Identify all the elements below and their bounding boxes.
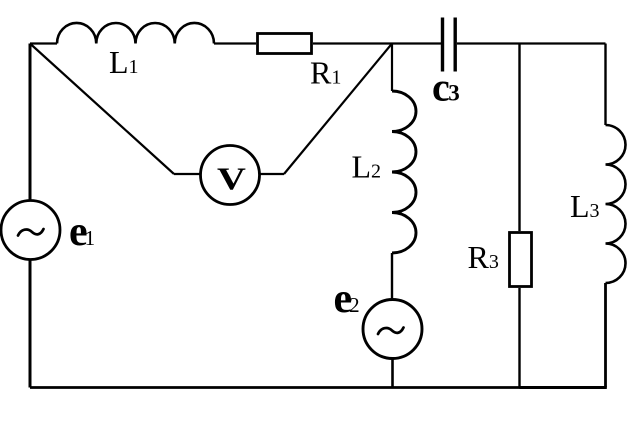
wire: R1 to node A (313, 42, 392, 44)
inductor L1 (57, 23, 214, 44)
wire: voltmeter right stub (260, 173, 285, 175)
resistor R3 (510, 233, 532, 287)
wire: voltmeter right diagonal up to node A (284, 44, 392, 175)
wire: e1 down to bottom-left corner (29, 260, 32, 388)
wire: left branch, top-left corner down to e1 (29, 44, 32, 202)
wire: junction B to top-right corner (520, 42, 606, 44)
inductor L2 (392, 91, 416, 253)
wire: C3 to junction B (457, 42, 520, 44)
wire: bottom right segment (520, 386, 607, 389)
wire: e2 down to bottom wire (391, 359, 394, 388)
wire: top-left corner to L1 (30, 42, 57, 44)
source e2 (363, 300, 422, 359)
capacitor C3 (441, 18, 457, 72)
wire: L1 to R1 (214, 42, 256, 44)
resistor R1 (258, 34, 312, 54)
wire: voltmeter left diagonal from top-left corner (30, 44, 174, 175)
wire: node A down to L2 (391, 44, 393, 92)
inductor L3 (606, 125, 626, 283)
wire: top-right corner down to L3 (604, 44, 606, 126)
svg-text:V: V (217, 161, 246, 196)
wire: L3 down to bottom-right corner (604, 283, 607, 388)
wire: bottom left segment (30, 386, 520, 389)
voltmeter V (201, 146, 260, 205)
wire: junction B down to R3 (518, 44, 520, 232)
wire: node A to C3 (392, 42, 441, 44)
wire: R3 down to bottom wire (518, 288, 520, 388)
wire: L2 down to e2 (391, 253, 393, 300)
wire: voltmeter left stub (174, 173, 201, 175)
source e1 (1, 201, 60, 260)
